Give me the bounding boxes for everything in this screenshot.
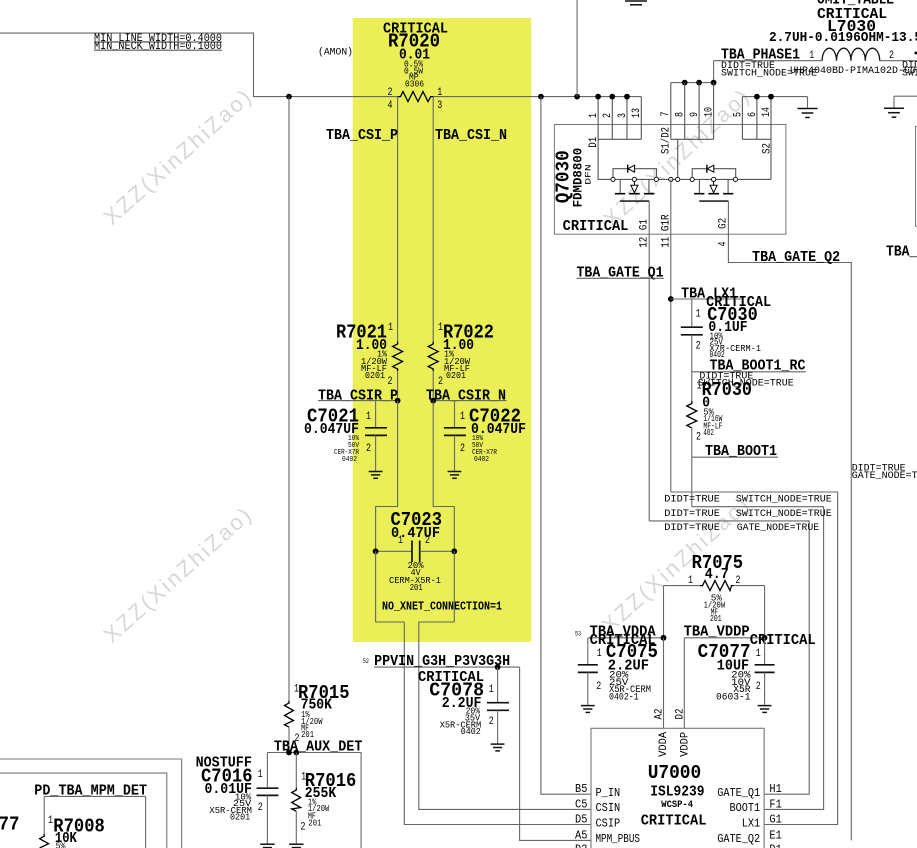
svg-text:GATE_NODE=TRUE: GATE_NODE=TRUE: [852, 470, 917, 482]
svg-text:0603-1: 0603-1: [716, 693, 751, 704]
svg-text:4.7: 4.7: [705, 566, 729, 583]
wire P_IN from VIN: [541, 97, 591, 795]
svg-text:6: 6: [747, 112, 759, 117]
label R7008: [48, 815, 105, 848]
label C7030: [696, 294, 772, 360]
wire CSIR_P down to C7023: [376, 401, 398, 552]
svg-text:0402-1: 0402-1: [609, 693, 639, 704]
svg-text:10: 10: [704, 107, 716, 117]
label C7021: [304, 406, 371, 465]
svg-text:C5: C5: [575, 798, 587, 811]
pin 7 Q7030: [660, 83, 672, 140]
wire row2 BOOT1 route: [692, 507, 824, 810]
wire C7023 right to CSIN: [419, 551, 591, 809]
highlight region: [353, 18, 532, 642]
wire TBA_PHASE1 vertical: [713, 61, 715, 83]
wire VDDP pin D2: [683, 638, 685, 729]
wire S2 output: [742, 96, 807, 98]
pin D2 label: [675, 709, 692, 757]
resistor R7075: [664, 581, 765, 638]
svg-text:2: 2: [596, 681, 601, 693]
ground C7021: [369, 472, 383, 479]
wire stub going off top at x=577.1: [576, 0, 578, 97]
label C7016: [196, 755, 263, 823]
label R7021: [336, 322, 393, 389]
svg-text:WCSP-4: WCSP-4: [661, 799, 693, 811]
svg-text:2: 2: [489, 716, 494, 728]
svg-text:3: 3: [617, 113, 629, 118]
svg-text:1: 1: [460, 411, 465, 423]
ground C7078: [491, 744, 505, 751]
watermark 4: [99, 501, 258, 648]
svg-text:D2: D2: [675, 709, 687, 720]
pin 2 Q7030: [602, 94, 615, 140]
transistor Q7030 box: [554, 125, 786, 235]
svg-text:1: 1: [388, 322, 393, 334]
svg-text:GATE_Q2: GATE_Q2: [717, 833, 760, 846]
ground C7016: [260, 844, 274, 847]
svg-text:D1: D1: [588, 136, 600, 147]
capacitor C7022: [444, 401, 466, 471]
ground (cut off at top center): [625, 1, 647, 5]
label row3 DIDT: [664, 522, 819, 534]
svg-text:0402: 0402: [474, 456, 489, 464]
wire PPVIN to MPM_PBUS: [520, 667, 591, 840]
svg-text:F1: F1: [769, 798, 781, 811]
wire channel rail Q7030: [598, 178, 771, 180]
svg-text:1: 1: [258, 769, 263, 781]
svg-text:DIDT=TRUE: DIDT=TRUE: [664, 522, 720, 534]
svg-text:1: 1: [588, 113, 600, 118]
pin E1 GATE_Q2: [717, 829, 782, 846]
pin G2 label: [718, 218, 730, 247]
watermark 1: [99, 83, 258, 230]
wire AUX branch from VIN: [288, 97, 290, 701]
svg-text:53: 53: [575, 631, 581, 638]
svg-text:2: 2: [438, 376, 443, 388]
svg-text:1: 1: [398, 535, 403, 547]
ground right of L7030: [884, 96, 917, 117]
capacitor C7023: [373, 541, 457, 563]
svg-text:2: 2: [388, 87, 393, 99]
pin B5 P_IN: [575, 783, 620, 800]
capacitor C7078: [487, 667, 509, 743]
node TBA_VDDA: [575, 624, 666, 649]
svg-text:2.7UH-0.0196OHM-13.5: 2.7UH-0.0196OHM-13.5: [769, 30, 917, 46]
svg-text:1: 1: [696, 309, 701, 321]
svg-text:VDDA: VDDA: [658, 732, 670, 757]
svg-text:LX1: LX1: [742, 817, 760, 830]
svg-text:TBA_CSIR_P: TBA_CSIR_P: [318, 387, 398, 404]
pin G1 label: [639, 219, 651, 248]
label C7022: [460, 406, 526, 465]
svg-text:TBA_VI: TBA_VI: [886, 244, 917, 261]
svg-text:(AMON): (AMON): [318, 47, 353, 59]
svg-text:TBA_GATE_Q2: TBA_GATE_Q2: [752, 249, 840, 266]
wire AUX_DET off bottom: [360, 753, 362, 848]
svg-text:ISL9239: ISL9239: [650, 784, 704, 801]
svg-text:1: 1: [597, 648, 602, 660]
wire G1 gate to row3: [648, 201, 650, 521]
pin F1 BOOT1: [730, 798, 782, 815]
pin 8 Q7030: [675, 83, 687, 140]
wire row3 GATE_Q1 route: [649, 521, 809, 794]
svg-text:D1: D1: [769, 844, 781, 848]
svg-text:E1: E1: [769, 829, 781, 842]
svg-text:2: 2: [301, 822, 306, 834]
resistor R7016: [292, 753, 301, 844]
circle G1R tap: [669, 177, 673, 181]
IC U7000 box: [591, 728, 764, 848]
svg-text:VDDP: VDDP: [680, 732, 692, 757]
wire BOOT1 to row2: [691, 457, 693, 507]
pin 6 Q7030: [747, 94, 760, 140]
resistor R7022: [428, 342, 438, 372]
label C7077: [698, 641, 761, 704]
svg-text:FDMD8800: FDMD8800: [571, 148, 586, 208]
pin 9 Q7030: [689, 83, 701, 140]
wire S2 bus: [742, 139, 773, 179]
label R7016: [301, 770, 357, 834]
svg-text:D3: D3: [575, 844, 587, 848]
svg-text:MPM_PBUS: MPM_PBUS: [596, 833, 641, 846]
svg-text:0201: 0201: [446, 371, 466, 381]
svg-text:2: 2: [388, 376, 393, 388]
node TBA_VDDP: [684, 624, 816, 649]
svg-text:1: 1: [437, 87, 442, 99]
svg-text:201: 201: [710, 614, 722, 624]
svg-text:SWITCH_NODE=TRUE: SWITCH_NODE=TRUE: [736, 493, 832, 505]
svg-text:1: 1: [809, 50, 814, 62]
label R7075: [688, 552, 743, 624]
svg-text:0306: 0306: [405, 79, 424, 89]
svg-text:2: 2: [736, 575, 741, 587]
transistor Q7030 FET1: [611, 165, 659, 201]
label DIDT on gate_q2: [852, 462, 917, 482]
svg-text:S2: S2: [761, 143, 773, 154]
svg-text:8: 8: [675, 112, 687, 117]
svg-text:GATE_Q1: GATE_Q1: [717, 787, 760, 800]
junction phase pins: [682, 80, 717, 86]
svg-text:5%: 5%: [56, 842, 66, 848]
svg-text:13: 13: [631, 108, 643, 118]
label C7023: [389, 509, 442, 593]
ground C7075: [581, 706, 595, 713]
label DIDT right edge: [902, 59, 917, 79]
pin 5 Q7030: [732, 97, 744, 140]
wire TBA_CSI_N sense: [432, 97, 434, 342]
capacitor C7016: [257, 753, 279, 844]
svg-text:CRITICAL: CRITICAL: [641, 812, 707, 829]
svg-text:BOOT1: BOOT1: [730, 802, 761, 815]
svg-text:0201: 0201: [230, 812, 250, 822]
junction node at x=577.1: [574, 94, 580, 100]
svg-text:2: 2: [258, 802, 263, 814]
svg-text:1: 1: [756, 648, 761, 660]
svg-text:A5: A5: [575, 829, 587, 842]
wire R7022 to CSIR_N: [432, 371, 434, 401]
ground R7016: [289, 844, 303, 847]
sheet border outer: [0, 759, 182, 848]
svg-text:U7000: U7000: [648, 762, 702, 784]
pin A5 MPM_PBUS: [575, 829, 640, 846]
svg-text:DIDT=TRUE: DIDT=TRUE: [664, 493, 720, 505]
pin C5 CSIN: [575, 798, 620, 815]
pin 1 Q7030: [588, 94, 601, 140]
svg-text:2: 2: [602, 113, 614, 118]
wire G1R / TBA_LX1: [670, 179, 672, 492]
svg-text:77: 77: [0, 814, 20, 836]
pin A2 label: [653, 709, 670, 757]
svg-text:DFN: DFN: [585, 164, 594, 185]
ground C7022: [448, 472, 462, 479]
svg-text:CRITICAL: CRITICAL: [563, 218, 629, 235]
capacitor C7075: [578, 638, 598, 705]
wire G2 to TBA_GATE_Q2: [728, 201, 851, 840]
svg-text:1: 1: [438, 322, 443, 334]
pin 3 Q7030: [617, 94, 630, 140]
svg-text:0402: 0402: [342, 456, 357, 464]
ground C7077: [758, 706, 772, 713]
svg-text:402: 402: [703, 428, 714, 438]
svg-text:P_IN: P_IN: [596, 787, 621, 800]
pin 10 Q7030: [704, 83, 716, 140]
svg-text:2: 2: [366, 443, 371, 455]
wire VDDA pin A2: [663, 638, 665, 729]
svg-text:1: 1: [366, 411, 371, 423]
label row2 DIDT: [664, 508, 832, 520]
resistor R7030: [687, 372, 697, 457]
junction node at x=540.9: [538, 94, 544, 100]
resistor R7008: [40, 796, 49, 848]
svg-text:GATE_NODE=TRUE: GATE_NODE=TRUE: [737, 522, 819, 534]
node TBA_AUX_DET: [267, 738, 362, 755]
svg-text:A2: A2: [653, 709, 665, 720]
svg-text:B5: B5: [575, 783, 587, 796]
pin D5 CSIP: [575, 814, 620, 831]
svg-text:2: 2: [756, 681, 761, 693]
label R7015: [294, 682, 350, 745]
capacitor C7030: [681, 299, 703, 372]
transistor Q7030 FET2: [690, 165, 738, 201]
node TBA_PHASE1: [714, 47, 917, 80]
node TBA_LX1: [668, 286, 742, 303]
label R7020: [383, 21, 448, 90]
wire CSIR_N down to C7023: [433, 401, 454, 552]
pin 14 Q7030: [761, 94, 774, 140]
node TBA_CSIR_N: [426, 387, 507, 404]
label Q7030: [553, 148, 629, 235]
label row1 DIDT: [664, 493, 832, 505]
svg-text:201: 201: [308, 819, 321, 829]
svg-text:0402: 0402: [461, 727, 481, 737]
resistor R7021: [393, 342, 403, 372]
wire S1/D2 bus: [661, 127, 714, 179]
svg-text:1: 1: [489, 684, 494, 696]
svg-text:SWITCH_NODE=TRUE: SWITCH_NODE=TRUE: [902, 67, 917, 79]
svg-text:1: 1: [688, 575, 693, 587]
label C7078: [418, 669, 494, 737]
node PD_TBA_MPM_DET: [34, 782, 147, 799]
svg-text:2: 2: [460, 443, 465, 455]
svg-text:D5: D5: [575, 814, 587, 827]
sheet border inner: [0, 773, 167, 848]
svg-text:TBA_CSI_N: TBA_CSI_N: [435, 127, 507, 144]
svg-text:9: 9: [689, 112, 701, 117]
svg-text:G1: G1: [769, 814, 781, 827]
watermark 2: [598, 83, 755, 232]
node TBA_CSIR_P: [318, 387, 401, 404]
wire VIN bus right of R7020: [434, 96, 642, 98]
svg-text:CSIN: CSIN: [596, 802, 621, 815]
capacitor C7021: [365, 401, 387, 471]
watermark 3: [597, 491, 756, 638]
wire phase bus: [671, 82, 714, 84]
label C7075: [596, 641, 658, 704]
pin 13 Q7030: [631, 97, 643, 140]
svg-text:TBA_CSI_P: TBA_CSI_P: [326, 127, 398, 144]
resistor R7015: [285, 701, 294, 753]
svg-text:DIDT=TRUE: DIDT=TRUE: [664, 508, 720, 520]
svg-text:CRITICAL: CRITICAL: [750, 632, 816, 649]
svg-text:NO_XNET_CONNECTION=1: NO_XNET_CONNECTION=1: [382, 601, 502, 614]
wire VIN input from left edge: [0, 33, 398, 97]
wire R7021 to CSIR_P: [397, 371, 399, 401]
svg-text:UHP4040BD-PIMA102D-COIL: UHP4040BD-PIMA102D-COIL: [790, 65, 917, 77]
box cut at right edge: [916, 127, 917, 227]
svg-text:52: 52: [363, 658, 369, 665]
wire MPM_DET off bottom: [145, 796, 147, 848]
wire mark top right: [915, 52, 917, 55]
label R7030: [696, 379, 752, 443]
svg-text:2: 2: [696, 431, 701, 443]
svg-text:4: 4: [388, 100, 393, 112]
note MIN_LINE_WIDTH: [94, 33, 222, 53]
node TBA_GATE_Q1: [577, 264, 664, 281]
svg-text:TBA_CSIR_N: TBA_CSIR_N: [426, 387, 506, 404]
svg-text:CSIP: CSIP: [596, 817, 621, 830]
wire row1 LX1 route: [671, 492, 838, 825]
label U7000: [641, 762, 707, 829]
node TBA_BOOT1: [692, 443, 778, 460]
svg-text:5: 5: [732, 112, 744, 117]
svg-text:S1/D2: S1/D2: [661, 127, 673, 154]
resistor R7020: [398, 92, 434, 102]
svg-text:2: 2: [425, 535, 430, 547]
ground S2: [798, 97, 818, 118]
svg-text:3: 3: [437, 100, 442, 112]
pin H1 GATE_Q1: [717, 783, 782, 800]
capacitor C7077: [755, 638, 775, 705]
svg-text:0201: 0201: [365, 371, 385, 381]
svg-text:MIN_NECK_WIDTH=0.1000: MIN_NECK_WIDTH=0.1000: [94, 41, 222, 53]
svg-text:SWITCH_NODE=TRUE: SWITCH_NODE=TRUE: [736, 508, 832, 520]
wire C7023 left to CSIP: [376, 551, 591, 824]
svg-text:2: 2: [696, 341, 701, 353]
wire TBA_CSI_P sense: [397, 97, 399, 342]
label R7022: [438, 322, 494, 389]
node TBA_BOOT1_RC: [692, 358, 806, 390]
junction node at x=289: [286, 94, 292, 100]
node PPVIN_G3H_P3V3G3H: [363, 653, 520, 670]
inductor L7030: [822, 48, 880, 61]
pin G1R label: [660, 214, 672, 248]
svg-text:201: 201: [410, 583, 423, 593]
svg-text:7: 7: [660, 112, 672, 117]
svg-text:H1: H1: [769, 783, 781, 796]
svg-text:14: 14: [761, 107, 773, 117]
wire D1 bus: [588, 136, 642, 179]
label L7030: [769, 0, 917, 46]
pin G1 LX1: [742, 814, 782, 831]
